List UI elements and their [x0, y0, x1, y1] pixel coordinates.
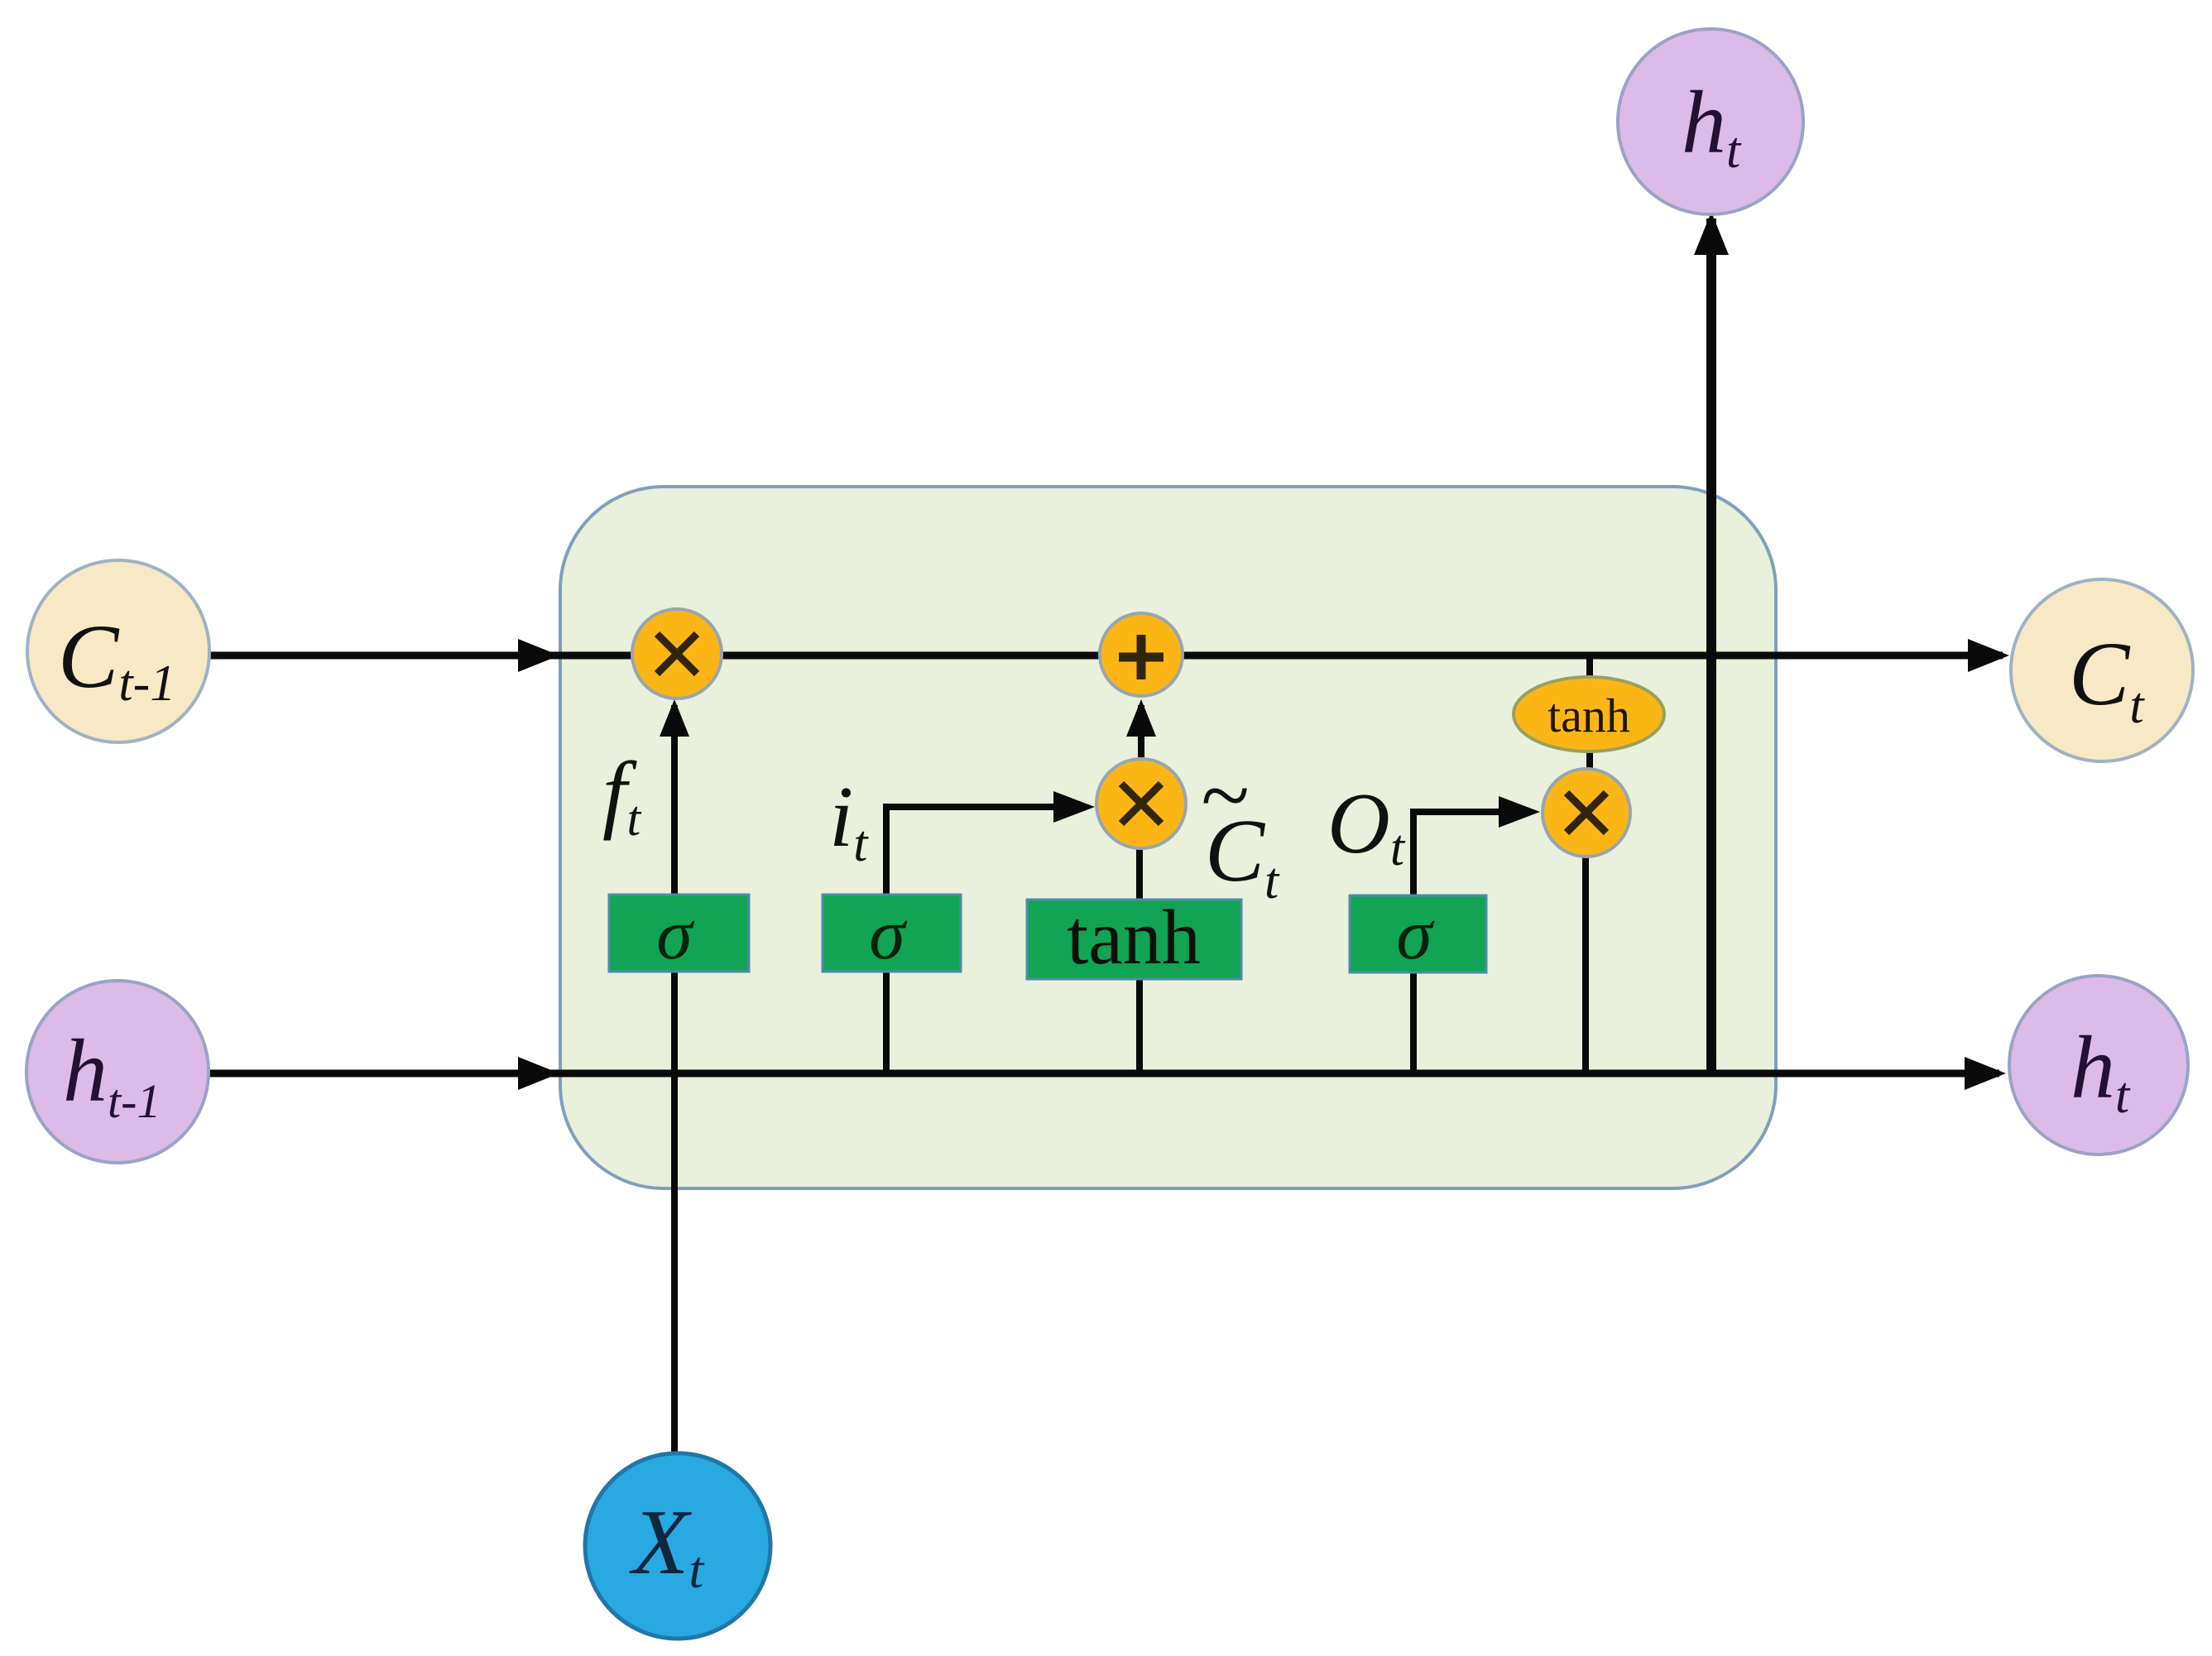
op: candidate multiply — [1096, 759, 1186, 848]
node X_t — [585, 1453, 770, 1639]
arrowhead: i_t into candidate multiply — [1053, 791, 1095, 823]
label O_t — [1327, 775, 1406, 876]
wire: X_t input vertical up through sigma1 to forget x — [671, 705, 678, 1457]
node h_t (right output) — [2009, 976, 2188, 1154]
wire: thick output riser to h_t (top) — [1706, 218, 1716, 1077]
wire: sigma3 up-elbow to output multiply (O_t path) — [1413, 812, 1529, 1073]
op: output multiply — [1543, 769, 1630, 857]
arrowhead: f_t into forget multiply — [660, 699, 689, 737]
label C~_t (candidate) — [1200, 746, 1280, 910]
op: add — [1100, 613, 1183, 696]
arrowhead: h line into h_t — [1965, 1057, 2006, 1090]
svg-text:tanh: tanh — [1547, 689, 1630, 742]
gate tanh (candidate gate) — [1027, 895, 1241, 981]
wire: sigma2 up-elbow to candidate multiply (i_t path) — [886, 807, 1084, 1073]
wire: tanh gate up to candidate multiply — [1136, 848, 1143, 1073]
wire: candidate multiply up to add — [1138, 705, 1144, 757]
wire: C line down to tanh ellipse — [1586, 655, 1593, 683]
gate sigma1 (forget gate) — [609, 895, 749, 975]
wire: hidden-state line h (horizontal) — [209, 1070, 1999, 1078]
svg-text:tanh: tanh — [1067, 895, 1201, 981]
label f_t — [602, 744, 641, 846]
arrowhead: h line entering cell — [518, 1057, 559, 1090]
gate sigma3 (output gate) — [1350, 895, 1486, 975]
op: forget multiply — [632, 609, 722, 698]
svg-text:σ: σ — [869, 895, 908, 975]
arrowhead: C line entering cell — [518, 639, 559, 672]
svg-text:σ: σ — [656, 895, 695, 975]
node h_{t-1} — [26, 981, 209, 1163]
svg-text:σ: σ — [1396, 895, 1435, 975]
wire: output multiply down to h line — [1582, 854, 1589, 1073]
wire: cell-state line C (horizontal) — [209, 652, 2003, 660]
svg-text:~: ~ — [1200, 746, 1248, 845]
node h_t (top output) — [1618, 29, 1803, 214]
op: tanh ellipse on output path — [1514, 677, 1664, 751]
LSTM cell body (rounded rectangle) — [560, 487, 1776, 1188]
arrowhead: O_t into output multiply — [1499, 796, 1540, 828]
node C_t — [2011, 579, 2193, 761]
gate sigma2 (input gate) — [823, 895, 961, 975]
label i_t — [829, 768, 869, 872]
arrowhead: C line into C_t — [1968, 639, 2009, 672]
node C_{t-1} — [27, 560, 209, 742]
wire: tanh ellipse down to output multiply — [1586, 749, 1593, 771]
arrowhead: candidate into add — [1126, 699, 1156, 737]
arrowhead: riser into h_t top — [1694, 212, 1729, 255]
